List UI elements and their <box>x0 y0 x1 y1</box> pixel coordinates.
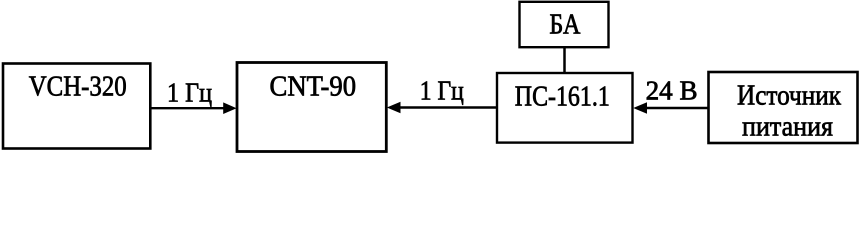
svg-text:1 Гц: 1 Гц <box>167 77 212 107</box>
svg-text:1 Гц: 1 Гц <box>420 75 464 105</box>
wire ПС-161.1 to CNT-90 with arrow <box>387 102 497 114</box>
svg-text:VCH-320: VCH-320 <box>29 71 127 103</box>
svg-text:ПС-161.1: ПС-161.1 <box>515 82 610 113</box>
wire БА to ПС-161.1 <box>563 47 566 73</box>
block ПС-161.1 <box>497 73 633 143</box>
block VCH-320 <box>3 64 150 149</box>
svg-text:БА: БА <box>549 10 581 41</box>
block CNT-90 <box>237 63 386 152</box>
svg-text:24 В: 24 В <box>646 75 698 105</box>
block БА <box>520 2 609 47</box>
svg-text:CNT-90: CNT-90 <box>270 71 357 103</box>
wire VCH-320 to CNT-90 with arrow <box>150 102 237 114</box>
wire Источник питания to ПС-161.1 with arrow <box>633 102 708 114</box>
block Источник питания <box>709 72 858 143</box>
svg-text:питания: питания <box>742 110 833 142</box>
svg-text:Источник: Источник <box>737 80 842 112</box>
